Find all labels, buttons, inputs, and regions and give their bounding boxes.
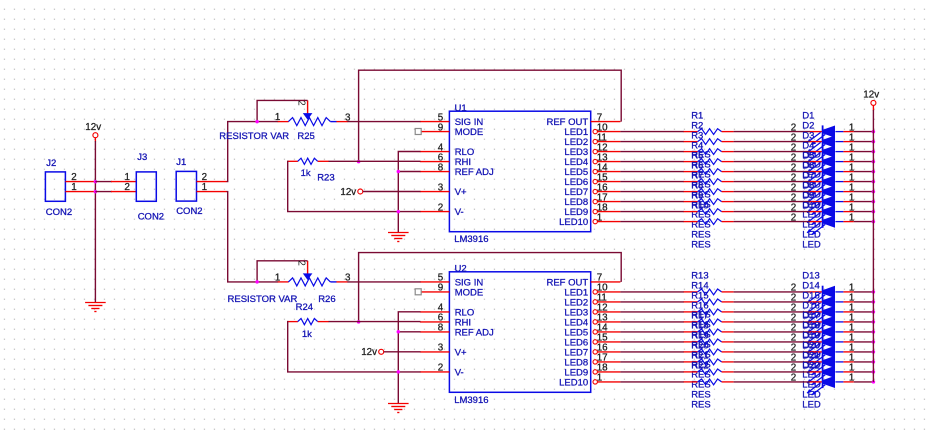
svg-text:12v: 12v	[85, 122, 101, 133]
svg-text:12v: 12v	[340, 187, 356, 198]
svg-text:R24: R24	[296, 302, 313, 313]
svg-text:U2: U2	[455, 263, 467, 274]
svg-text:MODE: MODE	[455, 288, 484, 299]
svg-text:RES: RES	[691, 239, 711, 250]
svg-text:2: 2	[296, 100, 307, 105]
svg-text:1: 1	[71, 182, 76, 193]
svg-text:V-: V-	[455, 368, 464, 379]
svg-text:U1: U1	[455, 103, 467, 114]
svg-text:1k: 1k	[302, 329, 312, 340]
svg-text:REF ADJ: REF ADJ	[455, 328, 494, 339]
svg-text:D10: D10	[802, 200, 819, 211]
svg-text:LED10: LED10	[559, 378, 588, 389]
svg-text:1k: 1k	[301, 168, 311, 179]
svg-text:CON2: CON2	[46, 207, 72, 218]
svg-text:R26: R26	[318, 294, 335, 305]
svg-text:J1: J1	[176, 157, 186, 168]
svg-text:J2: J2	[46, 158, 56, 169]
svg-text:RES: RES	[691, 400, 711, 411]
svg-text:CON2: CON2	[138, 212, 164, 223]
svg-text:2: 2	[791, 212, 796, 223]
svg-text:D22: D22	[802, 361, 819, 372]
svg-text:V+: V+	[455, 348, 467, 359]
svg-text:REF ADJ: REF ADJ	[455, 167, 494, 178]
svg-text:R22: R22	[691, 361, 708, 372]
svg-text:LED10: LED10	[559, 217, 588, 228]
svg-text:2: 2	[791, 373, 796, 384]
svg-text:R23: R23	[317, 173, 334, 184]
svg-text:1: 1	[275, 273, 280, 284]
svg-text:R10: R10	[691, 200, 708, 211]
svg-text:1: 1	[202, 182, 207, 193]
svg-text:LM3916: LM3916	[454, 395, 488, 406]
svg-text:R25: R25	[297, 131, 314, 142]
svg-text:1: 1	[275, 112, 280, 123]
svg-text:2: 2	[296, 260, 307, 265]
svg-text:12v: 12v	[361, 347, 377, 358]
svg-text:LM3916: LM3916	[454, 234, 488, 245]
svg-text:MODE: MODE	[455, 127, 484, 138]
svg-text:J3: J3	[137, 152, 147, 163]
svg-text:V-: V-	[455, 207, 464, 218]
svg-text:CON2: CON2	[176, 206, 202, 217]
svg-text:RESISTOR VAR: RESISTOR VAR	[228, 294, 298, 305]
svg-text:LED: LED	[802, 239, 821, 250]
svg-text:12v: 12v	[863, 90, 879, 101]
svg-text:LED: LED	[802, 400, 821, 411]
svg-text:1: 1	[849, 212, 854, 223]
svg-text:V+: V+	[455, 187, 467, 198]
svg-text:2: 2	[125, 182, 130, 193]
svg-text:1: 1	[849, 373, 854, 384]
svg-text:RESISTOR VAR: RESISTOR VAR	[219, 131, 289, 142]
